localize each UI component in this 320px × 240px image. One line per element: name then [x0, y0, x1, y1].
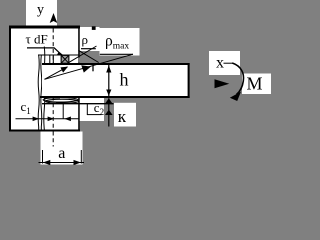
svg-text:M: M: [247, 74, 263, 94]
c2 label box: [80, 98, 104, 121]
break line left (wavy): [38, 55, 39, 132]
beam right border: [188, 63, 190, 98]
dashed centroid axis: [52, 29, 54, 147]
rho_max underline: [100, 53, 133, 55]
kappa dimension line: [108, 98, 110, 126]
rho_max radius line (shallow): [45, 54, 134, 79]
break line right (wavy): [44, 47, 45, 131]
svg-text:ρ: ρ: [82, 32, 89, 47]
svg-text:y: y: [37, 3, 44, 18]
a label box: [41, 132, 83, 165]
M label box: [242, 74, 271, 95]
beam (white): [42, 64, 189, 97]
small vertical stub: [92, 65, 94, 71]
x axis stub line: [224, 62, 234, 64]
element dF (gray square with cross): [61, 55, 69, 63]
tau dF underline leader: [27, 48, 62, 55]
svg-text:h: h: [120, 70, 129, 90]
radius line to element (rho): [45, 67, 68, 80]
cell divider 1: [49, 55, 51, 64]
a right arrowhead: [74, 160, 82, 165]
rho_max label box: [100, 28, 140, 56]
short diagonal B: [78, 50, 98, 62]
kappa top arrow (up): [105, 98, 113, 103]
cell row top line: [38, 54, 79, 56]
y label box: [26, 0, 57, 27]
a left extension line: [42, 150, 44, 164]
c1 left arrow (points right): [33, 117, 40, 122]
column face (white): [9, 26, 80, 132]
h bottom arrowhead: [106, 90, 111, 96]
column bottom edge: [9, 130, 80, 132]
a dimension line: [39, 162, 85, 164]
svg-text:a: a: [58, 145, 65, 162]
beam top border: [42, 63, 190, 65]
h top arrowhead: [106, 65, 111, 72]
rho label underline: [81, 48, 96, 50]
small black mark near rho box top: [92, 26, 96, 30]
column left edge: [9, 29, 11, 132]
rho arrowhead: [60, 67, 68, 73]
svg-text:x: x: [216, 55, 224, 72]
h dimension line: [108, 65, 110, 96]
tick near c2 label: [86, 104, 88, 115]
a right extension line: [80, 150, 82, 164]
x label box: [209, 51, 240, 75]
c dimension line: [16, 118, 80, 120]
dashed axis in a box: [52, 132, 54, 147]
c2 arrow (points left): [64, 117, 71, 122]
tau dF leader arrowhead: [57, 52, 64, 56]
beam bottom border: [40, 96, 190, 98]
svg-text:τ dF: τ dF: [26, 32, 48, 47]
y axis arrowhead: [50, 13, 58, 23]
a left arrowhead: [43, 160, 51, 165]
gray patch hiding right edge above beam: [78, 58, 99, 63]
rho_max mid arrowhead: [81, 65, 91, 72]
column top edge (thick): [9, 26, 80, 29]
rho label box: [80, 27, 100, 51]
x axis arrowhead: [215, 79, 230, 88]
c2 extension tick: [62, 104, 64, 119]
moment arc: [232, 63, 243, 95]
svg-text:к: к: [118, 107, 127, 126]
kappa second arrow (up): [105, 110, 113, 115]
glue band bottom line: [42, 103, 114, 105]
glue scribble: [43, 98, 79, 104]
rho label leader diagonal: [69, 46, 97, 63]
cell divider 3: [68, 55, 70, 64]
column right edge: [78, 29, 80, 130]
cell divider axis: [52, 55, 54, 64]
cell divider 2: [60, 55, 62, 64]
break line middle (wavy): [40, 55, 43, 132]
kappa label box: [114, 103, 136, 127]
c2 underline: [87, 114, 102, 116]
c1 right arrow (points right): [48, 117, 55, 122]
moment arrowhead: [230, 92, 241, 101]
